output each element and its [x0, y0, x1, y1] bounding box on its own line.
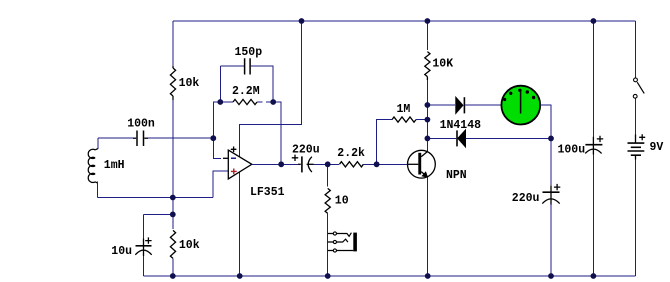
meter M1 green tuning indicator: [501, 86, 540, 125]
wire base node to transistor: [377, 163, 408, 165]
wire positive supply jog to op-amp: [240, 21, 302, 158]
wire op-amp output row: [252, 163, 298, 165]
wire 10u branch row: [144, 213, 173, 215]
meter scale dots: [503, 98, 506, 101]
svg-text:9V: 9V: [650, 141, 664, 154]
junction dot ground rail / op-amp V-: [237, 273, 243, 279]
wire 100n input row left (inductor top to C 100n): [98, 137, 133, 139]
resistor R5 2.2k: [339, 162, 363, 167]
op-amp U1 LF351 triangle: [228, 150, 252, 179]
junction dot ground rail / jack column: [325, 273, 331, 279]
svg-text:NPN: NPN: [446, 169, 467, 182]
junction dot 10u row / divider column: [170, 212, 176, 218]
diode D2 1N4148 (pointing left): [456, 130, 458, 146]
jack sleeve contact: [337, 250, 354, 252]
junction dot 2.2k left / 10 ohm branch: [325, 161, 331, 167]
junction dot collector column / top diode row: [425, 102, 431, 108]
wire 100n to node A (inverting input column): [148, 137, 213, 139]
switch S1 lever: [637, 82, 644, 93]
wire 100u column from top rail: [592, 21, 594, 137]
diode D1 1N4148 (pointing right): [456, 97, 463, 113]
capacitor C6 100u electrolytic: [592, 137, 594, 145]
resistor R1 10K: [425, 52, 430, 77]
wire top supply rail: [173, 20, 636, 22]
wire collector column from top rail to 10K: [426, 21, 428, 50]
junction dot op-amp output / feedback: [278, 161, 284, 167]
junction dot collector column / 1M row: [425, 117, 431, 123]
capacitor C4 10u electrolytic: [143, 239, 145, 246]
wire 10k R3 bottom to ground rail: [172, 258, 174, 276]
wire 10 ohm / jack branch down from 2.2k left node: [327, 164, 329, 186]
svg-text:1mH: 1mH: [104, 159, 125, 172]
wire left column from top rail to 10k R2: [172, 21, 174, 66]
junction dot top rail / 10K column: [425, 18, 431, 24]
junction dot meter column / bottom diode row: [548, 136, 554, 142]
switch S1 bottom contact: [633, 94, 637, 98]
junction dot ground rail / emitter: [425, 273, 431, 279]
junction dot ground rail / divider: [170, 273, 176, 279]
svg-text:10k: 10k: [179, 239, 200, 252]
svg-text:2.2M: 2.2M: [232, 85, 260, 98]
junction dot 2.2M right: [270, 99, 276, 105]
wire bottom diode row left: [427, 137, 456, 139]
jack contact circles: [333, 232, 336, 235]
wire op-amp negative supply to ground rail: [239, 170, 241, 276]
transistor emitter diagonal: [421, 172, 427, 178]
transistor emitter arrow: [421, 171, 428, 178]
junction dot node A (100n / inverting input): [210, 135, 216, 141]
wire 10u cap top lead: [143, 214, 145, 238]
wire collector column down to transistor: [426, 80, 428, 152]
inductor L1 1mH coil: [88, 149, 98, 184]
transistor base lead: [408, 163, 419, 165]
capacitor C5 220u electrolytic: [550, 186, 552, 193]
svg-text:150p: 150p: [235, 46, 263, 59]
wire 10u cap bottom to ground rail corner: [143, 256, 145, 276]
jack middle springy contact: [337, 239, 348, 242]
wire emitter to ground rail: [427, 178, 429, 277]
battery B1 9V: [635, 135, 637, 144]
wire 1M branch riser: [377, 120, 392, 165]
junction dot top rail / op-amp supply: [299, 18, 305, 24]
jack plug body bar: [353, 233, 357, 252]
wire 220u bottom to ground rail: [550, 205, 552, 276]
resistor R6 10: [325, 188, 330, 213]
svg-text:100n: 100n: [127, 118, 155, 131]
capacitor C1 100n: [133, 137, 136, 139]
wire battery minus to ground rail: [635, 160, 637, 277]
svg-text:1M: 1M: [397, 103, 411, 116]
svg-text:1N4148: 1N4148: [440, 119, 482, 132]
op-amp supply plus marker: [231, 147, 237, 153]
junction dot 2.2k right / 1M branch: [374, 161, 380, 167]
inductor L1 bottom leg: [97, 182, 99, 198]
jack top springy contact: [337, 233, 352, 237]
svg-text:10: 10: [335, 195, 349, 208]
headphone jack J1 contact leads: [328, 234, 334, 251]
wire 150p left vertical: [219, 66, 221, 102]
wire 220u column down: [550, 138, 552, 185]
wire switch to battery: [635, 98, 637, 134]
wire top rail right end down to switch: [635, 21, 637, 78]
transistor collector diagonal: [421, 151, 428, 157]
meter needle: [520, 90, 522, 113]
capacitor C3 220u electrolytic (output coupling): [298, 163, 301, 165]
wire left column 10k R2 down across 100n row to lower rows: [172, 100, 174, 229]
inductor L1 1mH left leg top: [97, 138, 99, 149]
transistor Q1 NPN circle: [408, 150, 436, 178]
svg-text:100u: 100u: [558, 144, 586, 157]
capacitor C2 150p: [245, 58, 251, 74]
junction dot ground rail / 220u: [548, 273, 554, 279]
wire node A to inverting input: [213, 138, 221, 158]
svg-text:10u: 10u: [111, 245, 132, 258]
junction dot 2.2M left: [217, 99, 223, 105]
op-amp inverting pin dash: [223, 157, 228, 159]
svg-text:10K: 10K: [432, 58, 453, 71]
wire node A up to feedback network: [213, 102, 220, 138]
wire D2 to meter right column: [466, 137, 552, 139]
junction dot ground rail / 100u: [591, 273, 597, 279]
junction dot collector column / bottom diode row: [425, 136, 431, 142]
op-amp non-inverting plus marker: [231, 169, 237, 175]
svg-text:220u: 220u: [292, 144, 320, 157]
resistor R7 1M: [392, 117, 416, 122]
wire 100u bottom to ground rail: [592, 155, 594, 276]
wire 220u to 2.2k node: [314, 163, 339, 165]
svg-text:LF351: LF351: [250, 186, 285, 199]
wire D1 to meter: [464, 104, 501, 106]
svg-text:220u: 220u: [512, 192, 540, 205]
wire 150p top row left: [220, 65, 244, 67]
wire 150p top row right: [251, 66, 274, 102]
wire top diode row left: [427, 104, 455, 106]
wire non-inverting input riser: [213, 171, 228, 198]
wire ground bottom rail: [144, 275, 636, 277]
resistor R2 10k (top left vertical): [172, 66, 174, 68]
wire meter right to 220u column: [540, 105, 551, 138]
op-amp inverting minus marker: [231, 157, 236, 159]
svg-text:10k: 10k: [179, 77, 200, 90]
svg-text:2.2k: 2.2k: [337, 147, 365, 160]
switch S1 top contact: [634, 78, 638, 82]
transistor base bar: [418, 153, 421, 175]
wire mid-left row (inductor bottom to non-inverting input): [98, 197, 214, 199]
resistor R4 2.2M feedback: [220, 101, 233, 103]
junction dot top rail / 100u column: [591, 18, 597, 24]
wire feedback right to op-amp output node: [273, 102, 281, 164]
resistor R3 10k (bottom left vertical): [170, 230, 175, 258]
junction dot mid-left row / divider column: [170, 195, 176, 201]
